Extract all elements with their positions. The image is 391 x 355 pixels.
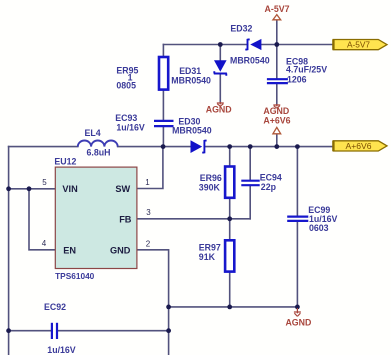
ground AGND bottom right [294, 308, 301, 316]
wire ER96 bottom stem [229, 198, 231, 219]
svg-text:1u/16V: 1u/16V [116, 123, 144, 133]
capacitor EC99 [287, 217, 308, 221]
diode ED31 MBR0540 [214, 60, 227, 75]
svg-text:AGND: AGND [206, 105, 232, 115]
junction EC99 bottom / AGND [295, 305, 300, 310]
svg-text:AGND: AGND [263, 106, 289, 116]
wire A+6V6 rail [206, 146, 333, 148]
capacitor EC92 [52, 323, 57, 339]
svg-text:AGND: AGND [285, 318, 311, 328]
svg-text:SW: SW [115, 184, 130, 194]
svg-text:MBR0540: MBR0540 [172, 125, 212, 135]
capacitor EC94 [241, 181, 259, 186]
junction A-5V7 node [274, 42, 279, 47]
svg-text:A-5V7: A-5V7 [347, 40, 370, 50]
wire FB row [137, 218, 250, 220]
svg-text:EC93: EC93 [115, 113, 137, 123]
junction ER96 / A+6V6 rail [227, 144, 232, 149]
capacitor EC93 [154, 121, 174, 126]
svg-text:A+6V6: A+6V6 [345, 141, 371, 151]
svg-text:EL4: EL4 [85, 128, 101, 138]
junction SW node [161, 144, 166, 149]
junction ER97 bottom / AGND rail [227, 305, 232, 310]
wire EC93 to SW rail [162, 127, 164, 147]
svg-text:6.8uH: 6.8uH [87, 148, 111, 158]
wire EC98 bottom to AGND [276, 84, 278, 104]
wire EC99 top stem [296, 147, 298, 216]
junction ED31 branch / top rail [218, 42, 223, 47]
wire ER95 top [162, 45, 164, 57]
wire main rail left (VIN to EL4) [9, 146, 78, 148]
svg-text:ED32: ED32 [230, 23, 252, 33]
wire EC99 bottom stem [296, 222, 298, 307]
svg-text:0805: 0805 [116, 80, 136, 90]
op-amp U1 : IC EU12 TPS61040 body [55, 167, 137, 268]
wire ED31 cathode to AGND [219, 74, 221, 102]
inductor EL4 [78, 141, 118, 147]
wire left vertical [8, 147, 10, 355]
junction EC94 / A+6V6 rail [248, 144, 253, 149]
svg-text:1: 1 [145, 178, 150, 187]
junction VIN / left vertical [6, 186, 11, 191]
power symbol A+6V6 [273, 127, 281, 133]
svg-text:5: 5 [42, 178, 47, 187]
svg-text:4.7uF/25V: 4.7uF/25V [286, 65, 327, 75]
wire top rail left of ED32 [163, 44, 247, 46]
wire SW pin to rail [137, 147, 163, 189]
wire bottom AGND rail [169, 306, 298, 308]
wire top rail right of ED32 [262, 44, 333, 46]
port flag A-5V7 [333, 40, 387, 50]
svg-text:22p: 22p [261, 182, 277, 192]
resistor ER97 [225, 240, 234, 271]
svg-text:1u/16V: 1u/16V [47, 345, 75, 355]
port flag A+6V6 [333, 141, 387, 151]
junction FB node [227, 216, 232, 221]
wire EL4 to ED30 [118, 146, 191, 148]
wire ER97 bottom stem [229, 272, 231, 307]
diode ED30 MBR0540 [191, 140, 207, 153]
wire EC92 rail right [58, 330, 169, 332]
svg-text:4: 4 [42, 239, 47, 248]
junction VIN / EN branch [27, 186, 32, 191]
svg-text:VIN: VIN [62, 184, 78, 194]
junction EC92 rail / GND vertical [166, 328, 171, 333]
svg-text:1206: 1206 [287, 74, 307, 84]
wire VIN row [9, 188, 56, 190]
svg-text:ED31: ED31 [179, 66, 201, 76]
svg-text:FB: FB [119, 214, 132, 224]
wire EC94 bottom stem [249, 186, 251, 219]
wire A+6V6 stem [276, 134, 278, 147]
power symbol A-5V7 [273, 15, 281, 20]
svg-text:0603: 0603 [309, 223, 329, 233]
wire GND pin branch [137, 250, 169, 355]
wire ER96 top stem [229, 147, 231, 167]
ground AGND under EC98 [273, 104, 280, 108]
svg-text:3: 3 [146, 208, 151, 217]
wire EC92 rail left [9, 330, 51, 332]
resistor ER96 [225, 167, 234, 198]
wire EN branch [29, 189, 55, 250]
wire EC98 top [276, 45, 278, 79]
svg-text:EN: EN [63, 245, 76, 255]
capacitor EC98 [267, 79, 288, 83]
svg-text:EU12: EU12 [54, 157, 76, 167]
svg-text:MBR0540: MBR0540 [171, 75, 211, 85]
svg-text:91K: 91K [199, 252, 216, 262]
svg-text:390K: 390K [199, 182, 221, 192]
junction A+6V6 power stem [274, 144, 279, 149]
junction EC92 rail / left vertical [6, 328, 11, 333]
svg-text:2: 2 [146, 239, 151, 248]
ground AGND under ED31 [217, 102, 224, 106]
svg-text:GND: GND [110, 245, 131, 255]
svg-text:A-5V7: A-5V7 [265, 4, 290, 14]
junction EC99 / A+6V6 rail [295, 144, 300, 149]
svg-text:A+6V6: A+6V6 [263, 116, 290, 126]
svg-text:MBR0540: MBR0540 [230, 55, 270, 65]
junction GND vertical / AGND rail [166, 305, 171, 310]
diode ED32 MBR0540 [245, 39, 261, 50]
resistor ER95 [159, 57, 168, 90]
wire ER97 top stem [229, 219, 231, 240]
svg-text:EC92: EC92 [44, 302, 66, 312]
wire A-5V7 stem [276, 20, 278, 45]
wire ER95 to EC93 [162, 90, 164, 120]
svg-text:TPS61040: TPS61040 [55, 271, 95, 281]
wire EC94 top stem [249, 147, 251, 180]
wire ED31 anode stem [219, 45, 221, 61]
